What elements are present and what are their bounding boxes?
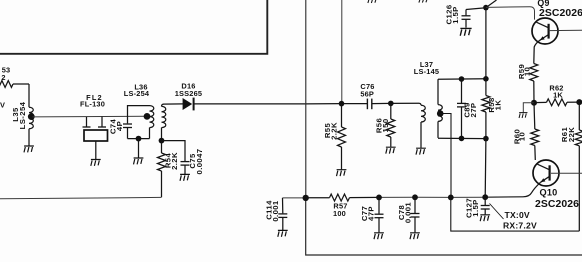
svg-text:LS-254: LS-254 — [124, 89, 150, 98]
svg-text:V: V — [0, 101, 5, 110]
ground L35 — [24, 146, 34, 152]
label C78 — [397, 202, 413, 224]
wire emitter rail — [451, 197, 580, 231]
svg-text:100: 100 — [333, 209, 346, 218]
capacitor C127 — [481, 197, 490, 214]
label Q9 — [537, 0, 582, 19]
wire rail left (to R54) — [0, 197, 162, 198]
svg-text:0.001: 0.001 — [271, 200, 280, 222]
node R59 bottom — [531, 100, 537, 106]
svg-text:10: 10 — [523, 67, 532, 76]
node L36 bottom — [136, 136, 142, 142]
node R55 — [339, 101, 345, 107]
wire Q10 base — [551, 172, 582, 174]
node bus main — [303, 195, 309, 201]
svg-text:0.001: 0.001 — [404, 202, 413, 224]
wire bottom rail — [306, 198, 582, 255]
capacitor C126 — [462, 10, 471, 28]
transistor Q9 — [532, 18, 558, 44]
wire L37 top rail — [438, 78, 486, 80]
svg-text:Q9: Q9 — [537, 0, 549, 8]
transformer L37 primary — [419, 103, 425, 148]
resistor R61 — [575, 102, 582, 231]
ground C77 — [374, 233, 384, 239]
wire supply to C126 — [466, 8, 486, 10]
label C89 — [463, 102, 479, 117]
label L36 — [124, 82, 150, 98]
resistor R59 — [530, 64, 538, 103]
wire bus left segment — [283, 197, 306, 199]
svg-text:0.0047: 0.0047 — [195, 149, 204, 175]
node R56 — [388, 101, 394, 107]
ground C127 — [480, 215, 490, 221]
capacitor C76 — [367, 99, 371, 110]
ground C114 — [278, 230, 288, 236]
label FL2 — [80, 93, 105, 109]
wire Q9 emitter — [534, 40, 540, 63]
ground FL2 — [91, 160, 101, 166]
label V (voltage, cut) — [0, 101, 5, 110]
ground R56 — [386, 147, 396, 153]
node R58 bottom — [483, 136, 489, 142]
ground L37 primary — [416, 148, 426, 154]
svg-text:2.2K: 2.2K — [330, 122, 339, 140]
label C127 — [465, 198, 481, 218]
transformer L37 secondary — [438, 79, 442, 138]
label R53 — [1, 66, 10, 83]
resistor R58 — [482, 79, 490, 139]
label R59 — [517, 64, 532, 79]
wire FL2 to ground — [95, 141, 97, 159]
capacitor C77 — [375, 197, 384, 232]
module box corner — [0, 0, 267, 54]
wire R58 to bus — [484, 139, 487, 198]
transformer L36 secondary — [162, 104, 166, 141]
wire R53 to L35 — [28, 84, 30, 107]
resistor R60 — [531, 103, 539, 160]
svg-text:4P: 4P — [115, 121, 124, 131]
wire supply diagonal — [486, 0, 497, 8]
svg-text:10: 10 — [518, 132, 527, 141]
label R56 — [374, 118, 390, 133]
svg-text:1SS265: 1SS265 — [175, 89, 203, 98]
label C75 — [188, 149, 204, 175]
svg-text:LS-145: LS-145 — [414, 67, 439, 76]
ground R59 node — [519, 113, 527, 118]
node L37 tap — [437, 110, 444, 117]
filter FL2 terminals — [83, 117, 107, 127]
wire supply to Q9 — [486, 7, 535, 20]
transformer L36 primary — [150, 106, 154, 139]
capacitor C75 wire — [162, 141, 186, 161]
svg-text:2SC2026: 2SC2026 — [539, 8, 582, 19]
node L36 primary tap — [144, 113, 151, 120]
wire L36 top rail — [128, 106, 150, 124]
wire Q9 base — [549, 29, 582, 31]
node L35 tap — [28, 113, 35, 120]
node bus C127 — [482, 194, 488, 200]
ground L36 — [134, 158, 144, 164]
capacitor C89 — [457, 79, 466, 138]
ground C126 — [460, 28, 471, 35]
top edge mark 1 — [368, 0, 376, 3]
label D16 — [175, 82, 203, 98]
svg-text:Q10: Q10 — [540, 187, 558, 197]
svg-text:RX:7.2V: RX:7.2V — [503, 221, 537, 231]
label C126 — [445, 5, 461, 25]
capacitor C74 — [123, 124, 132, 139]
label L35 — [11, 101, 27, 129]
capacitor C114 — [278, 198, 287, 230]
svg-text:2SC2026: 2SC2026 — [535, 199, 579, 210]
label C76 — [360, 82, 374, 98]
svg-text:TX:0V: TX:0V — [505, 210, 530, 220]
node L36 secondary bottom — [159, 138, 165, 144]
inductor L35 — [29, 107, 33, 129]
wire supply vertical — [485, 8, 487, 79]
node bus L37-tap — [448, 195, 454, 201]
wire D16 to L37 — [193, 102, 419, 105]
wire node to ground — [523, 103, 534, 112]
label R55 — [323, 122, 339, 140]
transistor Q10 — [533, 160, 559, 186]
resistor R53 (partial) — [0, 81, 29, 88]
label C74 — [108, 119, 124, 135]
svg-text:2.2K: 2.2K — [170, 152, 179, 170]
resistor R56 — [387, 103, 395, 146]
node R62 right — [576, 99, 582, 105]
wire R55 feed from top — [341, 0, 343, 104]
node R58 top — [483, 76, 489, 82]
node bus C77 — [376, 195, 382, 201]
resistor R55 — [338, 104, 346, 170]
svg-text:1K: 1K — [553, 91, 563, 100]
svg-text:22K: 22K — [567, 127, 576, 142]
svg-text:56P: 56P — [360, 89, 374, 98]
label R58 — [487, 97, 502, 113]
wire L36 rail to ground — [138, 139, 140, 158]
resistor R54 — [158, 141, 166, 198]
label C114 — [265, 200, 281, 222]
wire L36 bottom rail — [128, 138, 150, 140]
capacitor C75 — [181, 162, 190, 174]
svg-text:150: 150 — [381, 118, 390, 132]
node C89 bottom — [459, 136, 465, 142]
label Q10 — [535, 187, 579, 210]
svg-text:47P: 47P — [367, 206, 376, 221]
label C77 — [360, 206, 375, 221]
top edge mark 2 — [419, 0, 427, 3]
wire L37 tap down — [440, 114, 451, 198]
label R61 — [560, 127, 576, 143]
svg-text:FL-130: FL-130 — [80, 100, 105, 109]
ground R55 — [337, 170, 347, 176]
svg-text:2: 2 — [1, 73, 5, 82]
resistor R57 — [330, 194, 380, 201]
wire vertical bus left — [305, 0, 307, 198]
node supply — [483, 5, 489, 11]
wire bus mid — [379, 196, 485, 198]
annotation TX RX — [503, 210, 537, 231]
label R54 — [164, 152, 180, 170]
wire L36 to D16 — [163, 103, 183, 105]
label R57 — [333, 202, 348, 218]
svg-text:LS-254: LS-254 — [18, 101, 27, 129]
label L37 — [414, 60, 439, 76]
ground C75 — [180, 174, 190, 180]
svg-text:27P: 27P — [469, 103, 478, 118]
node bus C78 — [412, 194, 418, 200]
capacitor C78 — [411, 197, 420, 232]
node C89 top — [459, 76, 465, 82]
ground C78 — [410, 233, 420, 239]
wire bus to R57 — [306, 197, 330, 199]
wire L37 bottom rail — [438, 137, 486, 139]
resistor R62 — [534, 99, 579, 106]
label R60 — [513, 129, 527, 144]
annotation pointer — [490, 204, 504, 220]
svg-text:1.5P: 1.5P — [471, 199, 480, 216]
filter FL2 body — [84, 130, 108, 141]
wire L35 bottom — [28, 129, 30, 146]
label R62 — [549, 84, 563, 100]
svg-text:1.5P: 1.5P — [451, 6, 460, 23]
diode D16 — [183, 98, 194, 111]
wire Q10 emitter to bus — [485, 182, 540, 197]
svg-text:1K: 1K — [493, 100, 502, 111]
wire L35 tap to L36 — [33, 115, 147, 118]
